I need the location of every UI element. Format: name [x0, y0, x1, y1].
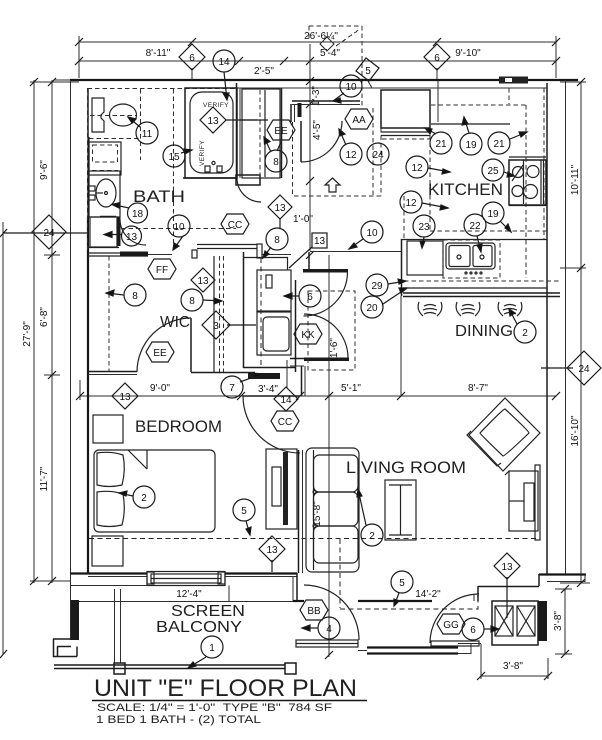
pantry door top swing	[304, 272, 348, 316]
svg-text:9'-6": 9'-6"	[39, 160, 50, 180]
hexagon CC hall	[221, 214, 249, 234]
svg-text:5'-1": 5'-1"	[341, 383, 361, 394]
leader 10 bath	[173, 236, 183, 250]
svg-text:13: 13	[197, 276, 209, 287]
leader 20	[383, 288, 407, 304]
leader 12 entry door	[339, 129, 346, 145]
toilet bowl	[110, 104, 137, 126]
diamond 3	[202, 311, 230, 339]
accent chair right wall	[509, 465, 540, 540]
diamond 13 tub	[200, 107, 226, 133]
circle 20	[361, 296, 383, 318]
hexagon AA	[345, 109, 373, 129]
svg-text:VERIFY: VERIFY	[199, 140, 206, 166]
bottom right dims	[481, 589, 572, 679]
left wall inner face (plumbing wall)	[87, 88, 89, 137]
svg-text:4: 4	[326, 624, 332, 635]
top dimension line A	[79, 36, 556, 122]
laundry west wall	[243, 252, 245, 368]
circle 24 entry	[367, 143, 389, 165]
balcony edge under bedroom	[70, 585, 147, 587]
leader 10 entry	[333, 93, 344, 103]
leader 23	[420, 237, 425, 248]
diamond 24 left	[32, 215, 66, 249]
circle 2 sofa	[361, 524, 383, 546]
mech unit 2	[517, 606, 535, 636]
south wall segment at mech closet	[478, 586, 539, 588]
hexagon GG	[437, 614, 465, 634]
circle 19 top	[460, 133, 482, 155]
svg-text:6'-8": 6'-8"	[39, 307, 50, 327]
circle 6 mech	[462, 618, 484, 640]
tick marks top	[75, 38, 560, 65]
svg-text:12'-4": 12'-4"	[176, 589, 202, 600]
bath door threshold	[148, 254, 172, 256]
bath south wall	[88, 248, 148, 257]
leader 2 dining	[509, 309, 517, 324]
bedroom window	[147, 572, 225, 586]
tub faucet dots	[205, 161, 222, 172]
bath door leaf	[117, 217, 121, 246]
circle 21 right	[488, 132, 510, 154]
circle 10 wall	[361, 221, 383, 243]
living room south wall west stub	[293, 600, 304, 602]
vanity counter	[88, 171, 120, 217]
svg-text:18: 18	[132, 209, 144, 220]
svg-text:24: 24	[43, 228, 55, 239]
svg-text:3'-8": 3'-8"	[553, 611, 564, 631]
laundry dashes	[260, 258, 262, 366]
balcony inner edge line	[79, 601, 293, 603]
leader 12 upper	[428, 168, 450, 174]
circle 29	[366, 274, 388, 296]
wall stub at pantry top	[308, 252, 310, 269]
stem diamond 6 left	[191, 68, 193, 80]
laundry top frame	[244, 257, 288, 259]
mech unit 1	[495, 606, 513, 636]
washer	[257, 312, 291, 355]
balcony post left	[114, 663, 125, 674]
right wall inner face	[546, 83, 548, 575]
BB door sill bar	[296, 640, 358, 647]
circle 8 hall	[265, 150, 287, 172]
dashed box top right of entry	[309, 26, 373, 196]
bed	[94, 450, 215, 532]
corner armchair rotated	[467, 398, 540, 475]
dashed vertical living	[339, 539, 341, 608]
laundry south wall	[243, 367, 296, 369]
svg-text:22: 22	[469, 221, 481, 232]
svg-text:12: 12	[345, 150, 357, 161]
bedroom door swing CC	[243, 396, 300, 453]
leader 8 wic left	[106, 290, 124, 296]
kitchen counter west end	[401, 239, 403, 296]
diamond 13 dim row	[112, 383, 138, 409]
stool 2	[456, 302, 480, 316]
svg-text:10: 10	[345, 82, 357, 93]
svg-text:3'-8": 3'-8"	[503, 661, 523, 672]
svg-text:2: 2	[522, 328, 528, 339]
circle 12 entry	[340, 143, 362, 165]
leader 14 to tub	[223, 72, 229, 100]
svg-text:12: 12	[411, 163, 423, 174]
leader 12 lower	[422, 203, 448, 210]
diamond 13 hall	[268, 195, 292, 219]
leader 6 mech	[484, 626, 499, 632]
stem square 5	[368, 81, 372, 88]
svg-text:7: 7	[229, 383, 235, 394]
stem 13 diamond hall	[279, 218, 281, 228]
leader circle 18 sink	[112, 203, 129, 209]
svg-text:CC: CC	[228, 220, 242, 231]
svg-text:5: 5	[399, 578, 405, 589]
wic south wall east	[191, 372, 255, 374]
leader diamond13 tub	[225, 119, 268, 121]
dishwasher	[407, 241, 443, 275]
bedroom east wall (divider)	[298, 450, 300, 573]
svg-text:1 BED 1 BATH - (2) TOTAL: 1 BED 1 BATH - (2) TOTAL	[96, 714, 261, 726]
vanity divider	[100, 216, 116, 218]
svg-text:BALCONY: BALCONY	[156, 619, 242, 636]
leader 1 balcony	[188, 657, 206, 668]
small diamond under 26'-6 label	[320, 37, 334, 51]
svg-text:23: 23	[418, 222, 430, 233]
laundry east wall	[295, 280, 297, 372]
tv console	[266, 449, 297, 529]
entry door AA leaf	[300, 121, 302, 162]
svg-text:KK: KK	[301, 330, 315, 341]
svg-text:13: 13	[266, 545, 278, 556]
circle 10 bath	[168, 215, 190, 237]
title underline	[92, 700, 367, 702]
svg-text:BEDROOM: BEDROOM	[135, 417, 222, 436]
svg-text:3'-4": 3'-4"	[258, 384, 278, 395]
leader 21 right	[510, 132, 527, 139]
circle 8 wic left	[124, 284, 146, 306]
balcony left wall	[71, 600, 79, 640]
linen cabinet	[89, 142, 121, 175]
hexagon EE hall	[267, 120, 295, 140]
bath door arc at vanity	[120, 219, 146, 245]
closet south cap	[236, 175, 260, 185]
svg-text:BB: BB	[307, 606, 321, 617]
coffee table	[385, 480, 416, 540]
svg-text:FF: FF	[156, 265, 168, 276]
kitchen upper cabinet line	[431, 123, 510, 125]
svg-text:16'-10": 16'-10"	[570, 415, 581, 446]
circle 7	[221, 376, 243, 398]
svg-text:UNIT "E" FLOOR PLAN: UNIT "E" FLOOR PLAN	[94, 675, 357, 702]
svg-text:SCALE: 1/4" = 1'-0" TYPE "B": SCALE: 1/4" = 1'-0" TYPE "B" 784 SF	[97, 702, 332, 714]
stem diamond 14	[286, 360, 288, 388]
circle 13 vanity	[122, 226, 142, 246]
svg-text:8'-7": 8'-7"	[468, 383, 488, 394]
circle 5 living	[391, 571, 413, 593]
circle 11	[136, 122, 158, 144]
svg-text:10: 10	[366, 228, 378, 239]
screened wall section right of balcony	[358, 648, 458, 654]
sink dashed box	[443, 240, 500, 278]
svg-text:10'-11": 10'-11"	[570, 164, 581, 195]
circle 12 kitchen upper	[406, 156, 428, 178]
svg-text:10: 10	[173, 222, 185, 233]
bath east wall	[236, 83, 238, 178]
circle 14 top	[213, 50, 235, 72]
leader 5 bedroom	[246, 521, 251, 535]
circle 6 washer	[299, 285, 321, 307]
wic pocket track end cap	[257, 244, 262, 258]
dashed line to balcony doors	[340, 594, 478, 609]
svg-text:KITCHEN: KITCHEN	[428, 180, 503, 199]
stool 1	[418, 302, 442, 316]
circle 4	[318, 617, 340, 639]
hexagon BB	[300, 600, 328, 620]
svg-text:14'-2": 14'-2"	[415, 589, 441, 600]
svg-text:WIC: WIC	[160, 314, 190, 331]
svg-text:LIVING ROOM: LIVING ROOM	[346, 458, 466, 477]
hall closet door arc	[237, 178, 261, 202]
bath dashed boundary bottom	[121, 228, 236, 230]
wic door leaf	[190, 318, 192, 372]
svg-text:27'-9": 27'-9"	[22, 321, 33, 347]
GG door sill bar	[431, 641, 479, 646]
svg-text:25: 25	[487, 166, 499, 177]
bathtub inner	[190, 92, 233, 173]
circle 2 bed	[133, 486, 155, 508]
bedroom door leaf	[243, 395, 300, 397]
svg-text:8: 8	[274, 235, 280, 246]
boxed 13	[312, 233, 327, 248]
bottom bedroom wall	[70, 572, 297, 574]
diamond 13 mech	[494, 553, 520, 579]
line from 10 along wall	[310, 251, 401, 253]
walkway edge bottom right	[458, 644, 481, 655]
svg-text:14: 14	[218, 57, 230, 68]
leader 19 lower	[500, 221, 511, 232]
balcony west screen wall	[115, 589, 121, 663]
svg-text:6: 6	[434, 53, 440, 64]
hall west wall lower	[290, 104, 292, 122]
svg-text:2: 2	[369, 531, 375, 542]
svg-text:6: 6	[307, 292, 313, 303]
svg-text:DINING: DINING	[455, 323, 513, 340]
circle 22	[464, 214, 486, 236]
diamond 6 left	[179, 44, 205, 70]
diamond 14	[274, 387, 298, 411]
svg-text:8: 8	[273, 157, 279, 168]
leader 24 diamond right	[541, 367, 573, 369]
svg-text:19: 19	[465, 140, 477, 151]
left dimension lines	[3, 80, 79, 655]
leader 8 hall	[264, 137, 271, 152]
svg-text:8: 8	[132, 291, 138, 302]
middle dimension line row y=396	[80, 44, 556, 657]
wic south wall west	[88, 371, 137, 373]
top wall	[70, 79, 578, 81]
svg-text:29: 29	[371, 281, 383, 292]
threshold to laundry wall	[262, 254, 291, 256]
hexagon FF	[148, 259, 176, 279]
wic pocket track left cap	[192, 250, 197, 258]
svg-text:1'-0": 1'-0"	[293, 214, 313, 225]
circle 21 left	[430, 132, 452, 154]
svg-text:11: 11	[142, 129, 153, 140]
stem 13 mech closet	[506, 577, 508, 618]
square 5 tilted	[356, 58, 379, 81]
leader EE stem	[277, 142, 281, 151]
svg-text:13: 13	[314, 236, 326, 247]
mech closet	[492, 601, 538, 645]
dresser north	[93, 415, 123, 443]
circle 5 bedroom	[233, 499, 255, 521]
leader boxed 13 to dryer	[289, 247, 312, 268]
svg-text:5: 5	[241, 506, 247, 517]
svg-text:AA: AA	[352, 115, 366, 126]
svg-text:1'-6": 1'-6"	[329, 338, 340, 358]
svg-text:3: 3	[213, 321, 219, 332]
svg-text:14: 14	[280, 395, 292, 406]
svg-text:19: 19	[487, 209, 499, 220]
leader 5 living	[394, 593, 399, 606]
right dimension lines	[560, 82, 590, 583]
circle 10 entry	[340, 75, 362, 97]
svg-text:2'-5": 2'-5"	[254, 66, 274, 77]
balcony west corner step	[53, 639, 77, 657]
left wall inner face lower	[87, 252, 89, 573]
svg-text:8'-11": 8'-11"	[146, 48, 171, 59]
diamond 13 wic	[191, 268, 215, 292]
GG door swing	[430, 594, 479, 643]
hexagon CC bedroom	[271, 411, 299, 431]
circle 18 vanity sink	[128, 203, 148, 223]
entry door AA swing	[301, 121, 342, 162]
diamond 24 right	[567, 351, 601, 385]
laundry corner jog	[290, 358, 304, 360]
kitchen dashed soffit lines	[294, 88, 560, 281]
vanity sink	[96, 179, 116, 207]
svg-text:6: 6	[470, 625, 476, 636]
leader 6 washer	[284, 293, 299, 299]
svg-text:21: 21	[493, 139, 505, 150]
svg-text:13: 13	[274, 203, 286, 214]
svg-text:CC: CC	[278, 417, 292, 428]
dashed leader from 26-6 label	[336, 29, 360, 46]
svg-text:BATH: BATH	[133, 187, 185, 206]
sofa	[306, 448, 359, 572]
svg-text:11'-7": 11'-7"	[39, 466, 50, 491]
closet east heavy band	[538, 601, 547, 641]
leader 10 kitchen	[349, 239, 363, 249]
entry dashed landing	[88, 88, 237, 250]
pantry dashed boundary	[308, 291, 355, 370]
leader toilet	[128, 117, 140, 127]
svg-text:9'-10": 9'-10"	[455, 48, 481, 59]
svg-text:20: 20	[366, 303, 378, 314]
hexagon EE wic	[146, 342, 174, 362]
wic pocket track	[197, 245, 257, 249]
svg-text:24: 24	[372, 150, 384, 161]
svg-text:5: 5	[365, 66, 371, 77]
svg-text:4'-5": 4'-5"	[312, 120, 323, 140]
entry door jamb post	[298, 103, 302, 117]
svg-text:13: 13	[501, 562, 513, 573]
balcony south rail	[54, 665, 285, 669]
svg-text:1'-3": 1'-3"	[311, 86, 322, 106]
pantry door bottom swing	[304, 314, 348, 358]
wall post between GG door and closet	[477, 586, 479, 601]
right wall outer face	[565, 80, 567, 575]
svg-text:SCREEN: SCREEN	[171, 603, 245, 620]
pantry door header bottom	[304, 358, 349, 362]
circle 25	[482, 159, 504, 181]
svg-text:1: 1	[209, 643, 215, 654]
svg-text:6: 6	[189, 53, 195, 64]
leader 22	[477, 236, 482, 252]
bath pocket door bar	[120, 252, 148, 257]
svg-text:VERIFY: VERIFY	[203, 102, 229, 109]
entry arrow symbol	[325, 178, 340, 192]
circle 1 balcony	[201, 636, 223, 658]
circle 23	[413, 215, 435, 237]
bar counter lines	[403, 292, 560, 294]
svg-text:12: 12	[405, 198, 417, 209]
diamond 6 right	[424, 44, 450, 70]
wall corner step down to living room south	[296, 573, 298, 601]
svg-text:13: 13	[119, 392, 131, 403]
wic door swing	[137, 318, 191, 372]
hall closet shelves	[259, 90, 261, 177]
svg-text:GG: GG	[443, 620, 459, 631]
hexagon KK	[294, 324, 322, 344]
diamond 13 bedroom window	[259, 536, 285, 562]
living room south wall east of BB door	[358, 600, 432, 602]
leader 7 bifold	[240, 373, 262, 382]
bath dashed partitions	[89, 89, 174, 250]
kitchen counter front edge	[401, 239, 547, 241]
leader 8 wic right	[203, 298, 222, 304]
long dashed electrical line bedroom/living	[89, 538, 540, 540]
svg-text:8: 8	[189, 296, 195, 307]
BB door swing	[304, 585, 359, 640]
leader 2 sofa	[357, 489, 366, 525]
leader 19 up	[462, 117, 469, 133]
leader diamond 3	[227, 324, 256, 326]
svg-text:21: 21	[435, 139, 447, 150]
vanity cabinet below	[90, 217, 117, 247]
leader 24 diamond left	[3, 232, 88, 234]
left wall outer face	[70, 80, 72, 586]
bedroom east wall top stub	[301, 366, 303, 396]
svg-text:13: 13	[207, 116, 219, 127]
svg-text:EE: EE	[274, 126, 288, 137]
svg-text:5'-4": 5'-4"	[320, 48, 340, 59]
svg-text:EE: EE	[153, 348, 167, 359]
svg-text:15: 15	[168, 152, 180, 163]
entry north wall	[292, 100, 346, 102]
leader 4 balcony	[302, 625, 318, 631]
leader 8 to pocket	[263, 247, 271, 258]
circle 2 dining	[514, 321, 536, 343]
laundry bifold door bar	[248, 373, 280, 379]
tub bottom edge	[183, 177, 237, 179]
pantry door header top	[303, 269, 348, 273]
south east wall	[539, 573, 586, 575]
toilet center dashed line	[90, 115, 136, 117]
circle 19 lower	[482, 202, 504, 224]
leader tub 15	[181, 149, 192, 154]
leader 29	[388, 279, 406, 284]
svg-text:2: 2	[141, 493, 147, 504]
